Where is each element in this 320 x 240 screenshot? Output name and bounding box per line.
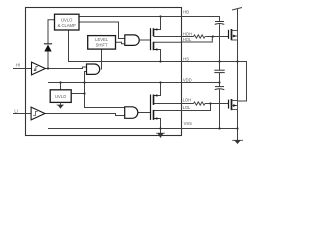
svg-text:SHIFT: SHIFT [96, 43, 108, 48]
svg-text:HB: HB [183, 10, 189, 15]
svg-text:& CLAMP: & CLAMP [58, 23, 76, 28]
svg-text:HS: HS [183, 56, 189, 61]
svg-text:UVLO: UVLO [55, 94, 67, 99]
svg-text:VSS: VSS [184, 121, 193, 126]
svg-text:VDD: VDD [183, 77, 192, 82]
svg-text:HI: HI [16, 62, 20, 67]
svg-text:LOL: LOL [183, 105, 192, 110]
svg-text:LEVEL: LEVEL [95, 37, 109, 42]
svg-text:LI: LI [14, 109, 17, 114]
svg-text:HOH: HOH [183, 32, 192, 37]
svg-text:HOL: HOL [183, 37, 192, 42]
svg-text:LOH: LOH [183, 98, 192, 103]
